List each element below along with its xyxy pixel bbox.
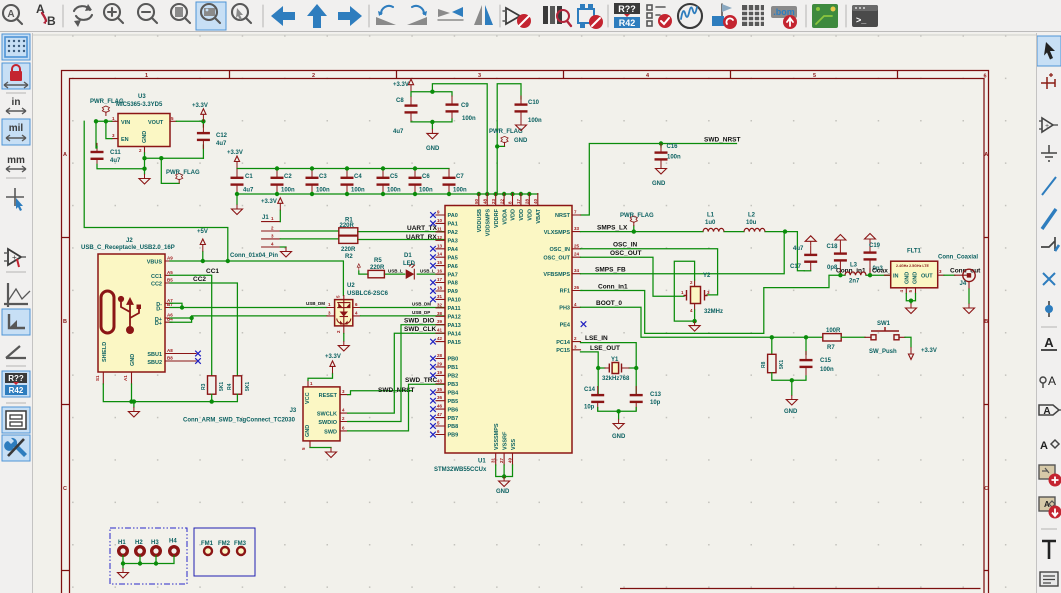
properties tools icon highlighted	[2, 435, 30, 461]
svg-text:PB7: PB7	[448, 416, 459, 422]
add sheet icon	[1039, 465, 1061, 487]
wire FLT1 out to J4	[944, 274, 955, 276]
wire CC2 net	[170, 283, 237, 376]
svg-text:C9: C9	[461, 103, 469, 109]
svg-text:R??: R??	[618, 4, 636, 14]
wire UART_TX net	[280, 230, 445, 233]
wire J1 pin1 to +3.3V	[279, 210, 281, 221]
MCU bottom pin stubs	[496, 453, 513, 465]
MCU right pin numbers	[574, 210, 580, 350]
wire OSC_IN net	[581, 249, 718, 295]
svg-text:46: 46	[437, 404, 443, 409]
svg-text:29: 29	[437, 361, 443, 366]
svg-text:C6: C6	[422, 174, 430, 180]
svg-text:VSSSMPS: VSSSMPS	[494, 423, 500, 450]
svg-text:PA14: PA14	[448, 331, 462, 337]
resistor R3	[208, 376, 216, 394]
wire MCU VSS gnd	[496, 465, 513, 477]
svg-text:PH3: PH3	[559, 306, 570, 312]
power flag PWR_FLAG4	[630, 216, 637, 226]
svg-text:220R: 220R	[340, 223, 355, 229]
svg-text:mm: mm	[7, 155, 25, 166]
svg-text:100n: 100n	[281, 188, 295, 194]
fiducial FM3	[234, 541, 247, 555]
svg-text:C11: C11	[110, 150, 121, 156]
svg-text:VDDSMPS: VDDSMPS	[485, 209, 491, 237]
svg-text:FM1: FM1	[201, 541, 214, 547]
svg-text:VCC: VCC	[305, 392, 311, 404]
svg-text:H2: H2	[135, 540, 143, 546]
svg-text:15: 15	[437, 260, 443, 265]
svg-text:GND: GND	[130, 354, 136, 366]
svg-text:12: 12	[437, 235, 443, 240]
svg-text:PA0: PA0	[448, 213, 458, 219]
svg-text:Conn_Coaxial: Conn_Coaxial	[938, 255, 978, 261]
svg-text:CC1: CC1	[206, 268, 219, 275]
svg-text:S1: S1	[95, 375, 100, 381]
svg-text:C7: C7	[456, 174, 464, 180]
sheet frame outer border	[62, 71, 989, 593]
add ground icon	[1041, 145, 1057, 161]
hierarchy navigator icon highlighted	[2, 407, 30, 433]
wire SMPS_FB net	[581, 232, 785, 274]
svg-text:R7: R7	[827, 345, 835, 351]
connector J1 pins	[230, 215, 280, 259]
svg-text:GND: GND	[426, 146, 440, 152]
svg-text:4u7: 4u7	[110, 158, 121, 164]
svg-text:C19: C19	[869, 243, 881, 249]
crystal Y2 32MHz	[681, 273, 723, 315]
capacitor C6	[409, 169, 422, 194]
svg-text:U3: U3	[138, 94, 146, 100]
svg-text:PB9: PB9	[448, 433, 459, 439]
svg-text:28: 28	[437, 353, 443, 358]
nav right arrow	[338, 6, 362, 26]
junction VIN	[104, 119, 108, 123]
wire antenna filter net	[829, 274, 891, 276]
svg-text:C5: C5	[390, 174, 398, 180]
svg-text:PB2: PB2	[448, 374, 459, 380]
wire USB_DM to MCU	[361, 307, 446, 309]
wire FLT1 gnd	[906, 294, 915, 304]
capacitor C8	[405, 97, 418, 122]
svg-text:SWD_NRST: SWD_NRST	[704, 137, 741, 144]
svg-text:100n: 100n	[667, 155, 681, 161]
grid visibility icon highlighted	[2, 34, 30, 60]
svg-text:PE4: PE4	[560, 322, 571, 328]
wire UART_RX net	[280, 238, 445, 241]
svg-text:VDD: VDD	[511, 209, 517, 221]
wire NRST net	[581, 144, 737, 216]
svg-text:PWR_FLAG: PWR_FLAG	[620, 213, 654, 219]
add text icon	[1042, 541, 1056, 559]
svg-text:PA5: PA5	[448, 255, 458, 261]
svg-text:C8: C8	[396, 98, 404, 104]
svg-text:GND: GND	[514, 138, 528, 144]
svg-text:B8: B8	[167, 356, 173, 361]
any angle lines icon	[6, 346, 26, 358]
wire +3.3V top rail	[411, 84, 487, 194]
svg-text:C15: C15	[820, 358, 832, 364]
edit footprints icon	[578, 4, 603, 29]
svg-text:USB_DM: USB_DM	[412, 302, 431, 307]
wire BOOT_0 net	[581, 307, 823, 354]
svg-text:C3: C3	[319, 174, 327, 180]
fiducials box	[194, 528, 255, 576]
mirror h icon	[438, 7, 463, 20]
MCU bottom pin names rotated	[494, 423, 517, 450]
junction icon	[1045, 301, 1053, 317]
svg-text:PA9: PA9	[448, 289, 458, 295]
svg-text:16: 16	[437, 269, 443, 274]
svg-text:PB4: PB4	[448, 391, 460, 397]
capacitor C18	[834, 245, 847, 270]
svg-text:100n: 100n	[316, 188, 330, 194]
svg-text:OUT: OUT	[921, 274, 933, 280]
net label icon	[1041, 335, 1057, 350]
no connect PE4	[581, 321, 587, 327]
annotate tool icon highlighted	[2, 371, 30, 397]
svg-text:CC2: CC2	[151, 282, 162, 288]
wire VOUT +3.3V net	[176, 121, 203, 158]
wire to bus entry icon	[1041, 237, 1059, 251]
svg-text:PA3: PA3	[448, 239, 458, 245]
wire C10 rail	[497, 84, 521, 194]
svg-text:FM2: FM2	[218, 541, 231, 547]
resistor R2	[339, 236, 358, 243]
rotate ccw icon	[376, 6, 396, 25]
svg-text:3: 3	[478, 73, 481, 79]
capacitor C14	[591, 386, 604, 411]
svg-text:C17: C17	[790, 264, 802, 270]
global label icon	[1039, 405, 1061, 417]
svg-text:R2: R2	[345, 254, 353, 260]
svg-text:32kHz768: 32kHz768	[602, 376, 630, 382]
svg-text:27: 27	[499, 457, 504, 463]
svg-text:24: 24	[574, 252, 580, 257]
svg-text:OSC_IN: OSC_IN	[550, 247, 571, 253]
svg-text:A5: A5	[167, 270, 173, 275]
junctions VDD rail at MCU pins	[477, 192, 532, 196]
svg-text:L2: L2	[748, 213, 756, 219]
wire J3 VCC +3.3V	[308, 373, 333, 380]
svg-text:LSE_OUT: LSE_OUT	[590, 345, 620, 352]
svg-text:OSC_OUT: OSC_OUT	[610, 250, 641, 257]
add power port icon	[1039, 118, 1058, 132]
MCU U1 STM32WB55CCUx body	[434, 206, 572, 474]
fiducial FM2	[218, 541, 231, 555]
svg-text:PA15: PA15	[448, 340, 461, 346]
svg-text:C16: C16	[667, 144, 679, 150]
svg-text:B: B	[63, 319, 67, 325]
svg-text:+: +	[1045, 123, 1049, 130]
svg-text:C13: C13	[650, 392, 662, 398]
svg-text:34: 34	[574, 268, 580, 273]
svg-text:2: 2	[312, 73, 315, 79]
resistor R1	[339, 228, 358, 235]
svg-text:41: 41	[437, 328, 443, 333]
resistor R5	[368, 270, 384, 277]
svg-text:PB3: PB3	[448, 382, 459, 388]
svg-text:STM32WB55CCUx: STM32WB55CCUx	[434, 467, 487, 473]
svg-text:UART_TX: UART_TX	[407, 225, 438, 232]
wire Y2 case gnd loop	[674, 261, 694, 321]
svg-text:EN: EN	[121, 137, 129, 143]
svg-text:SBU2: SBU2	[147, 360, 162, 366]
svg-text:4u7: 4u7	[243, 188, 254, 194]
svg-text:>_: >_	[856, 15, 867, 25]
svg-text:C18: C18	[827, 244, 839, 250]
svg-text:USB_DP: USB_DP	[412, 310, 430, 315]
capacitor C13	[630, 386, 643, 411]
MCU left pin stubs	[436, 215, 445, 435]
erc symbol icon	[4, 249, 26, 267]
svg-text:14: 14	[437, 252, 443, 257]
svg-text:PA7: PA7	[448, 272, 458, 278]
svg-text:L3: L3	[850, 263, 858, 269]
frame row ticks	[62, 238, 989, 571]
svg-text:10p: 10p	[584, 405, 595, 411]
svg-text:R42: R42	[9, 386, 24, 395]
ground below C8 C9	[427, 129, 438, 139]
svg-text:38: 38	[437, 311, 443, 316]
inductor L2	[744, 228, 765, 231]
svg-text:D+: D+	[155, 321, 162, 327]
svg-text:SW_Push: SW_Push	[869, 349, 897, 355]
svg-text:GND: GND	[305, 425, 311, 437]
MCU bottom pin numbers rotated	[491, 457, 513, 463]
svg-text:10p: 10p	[650, 400, 661, 406]
USB connector J2	[81, 238, 196, 384]
svg-text:C4: C4	[354, 174, 362, 180]
svg-text:A: A	[984, 152, 988, 158]
wire J1 pin4 to gnd	[280, 246, 286, 248]
regulator U3 MIC5365-3.3YD5	[112, 94, 177, 153]
no connect icon	[1043, 273, 1055, 285]
wire J4 gnd	[968, 289, 970, 304]
svg-text:J1: J1	[262, 215, 269, 221]
svg-text:PA11: PA11	[448, 306, 461, 312]
wire capacitor bank bottom rail VDD	[237, 193, 538, 195]
svg-text:PC15: PC15	[556, 348, 570, 354]
full cursor icon	[6, 188, 24, 211]
capacitor C17	[804, 246, 817, 271]
svg-text:U2: U2	[347, 283, 355, 289]
rotate cw icon	[407, 6, 427, 25]
svg-text:18: 18	[437, 286, 443, 291]
wire LED net	[359, 271, 445, 274]
svg-text:26: 26	[574, 285, 580, 290]
ground below C16	[656, 164, 667, 174]
wire R8 C15 gnd	[772, 373, 806, 395]
svg-text:PB6: PB6	[448, 407, 459, 413]
capacitor C5	[377, 169, 390, 194]
svg-text:28: 28	[525, 198, 530, 204]
svg-text:FM3: FM3	[234, 541, 247, 547]
frame column ticks	[230, 71, 898, 79]
svg-text:35: 35	[437, 387, 443, 392]
svg-text:C12: C12	[216, 133, 228, 139]
svg-text:4u7: 4u7	[793, 246, 804, 252]
svg-text:PC14: PC14	[556, 340, 571, 346]
mounting hole H3	[151, 540, 160, 555]
svg-text:+3.3V: +3.3V	[192, 103, 208, 109]
svg-text:PA13: PA13	[448, 323, 461, 329]
svg-text:SWDIO: SWDIO	[318, 420, 337, 426]
svg-text:PA12: PA12	[448, 315, 461, 321]
usb logo trident	[119, 297, 141, 334]
svg-text:FLT1: FLT1	[907, 249, 922, 255]
add wire icon	[1042, 177, 1056, 195]
wire J3 gnd	[310, 447, 331, 449]
svg-text:220R: 220R	[370, 265, 385, 271]
power +3.3V down arrow	[908, 347, 913, 360]
power flag PWR_FLAG3	[501, 136, 508, 146]
svg-text:GND: GND	[652, 181, 666, 187]
svg-text:PB5: PB5	[448, 399, 459, 405]
svg-text:49: 49	[508, 457, 513, 463]
assign footprint icon	[712, 4, 737, 29]
junctions cap bank	[235, 166, 451, 196]
svg-text:SBU1: SBU1	[147, 352, 162, 358]
svg-text:mil: mil	[9, 123, 24, 134]
svg-text:VLXSMPS: VLXSMPS	[544, 230, 571, 236]
svg-text:100n: 100n	[820, 367, 834, 373]
inductor L1	[703, 228, 724, 231]
svg-text:PA2: PA2	[448, 230, 458, 236]
capacitor C19	[864, 244, 877, 269]
MCU right pin stubs	[572, 215, 581, 350]
wire USB shield gnd	[103, 384, 237, 407]
coaxial connector J4	[938, 255, 978, 290]
wire SWD_NRST from J3	[348, 391, 412, 395]
svg-text:+3.3V: +3.3V	[261, 199, 277, 205]
svg-text:USB_C_Receptacle_USB2.0_16P: USB_C_Receptacle_USB2.0_16P	[81, 245, 175, 251]
svg-text:VOUT: VOUT	[148, 120, 164, 126]
svg-text:OSC_IN: OSC_IN	[613, 242, 638, 249]
svg-text:VDDA: VDDA	[502, 209, 508, 225]
svg-text:Conn_01x04_Pin: Conn_01x04_Pin	[230, 253, 278, 259]
svg-text:4u7: 4u7	[393, 129, 404, 135]
annotate R42 icon	[614, 3, 640, 28]
svg-text:GND: GND	[784, 409, 798, 415]
svg-text:VDD: VDD	[519, 209, 525, 221]
add text box icon	[1040, 572, 1058, 586]
svg-text:A1: A1	[123, 375, 128, 381]
fiducial FM1	[201, 541, 214, 555]
wire regulator GND net	[145, 153, 204, 184]
svg-text:PA10: PA10	[448, 298, 461, 304]
svg-text:32: 32	[437, 302, 443, 307]
svg-text:SHIELD: SHIELD	[102, 342, 108, 362]
svg-text:D-: D-	[156, 306, 162, 312]
svg-text:48: 48	[482, 198, 487, 204]
power +3.3V above C8	[408, 79, 413, 92]
svg-text:5K1: 5K1	[779, 360, 785, 369]
svg-text:22: 22	[499, 198, 504, 204]
ground below USB	[128, 407, 139, 417]
svg-text:R42: R42	[619, 18, 636, 28]
svg-text:100n: 100n	[387, 188, 401, 194]
mounting hole H2	[135, 540, 144, 555]
svg-text:39: 39	[437, 319, 443, 324]
capacitor C12	[197, 124, 210, 149]
svg-text:LSE_IN: LSE_IN	[585, 335, 608, 342]
svg-text:4u7: 4u7	[216, 141, 227, 147]
console icon	[852, 5, 878, 27]
wire OSC_OUT net	[581, 257, 685, 296]
snap lock icon highlighted	[2, 63, 30, 89]
mounting hole H1	[118, 540, 127, 555]
svg-text:31: 31	[491, 457, 496, 463]
svg-text:6: 6	[984, 74, 987, 80]
filter FLT1	[885, 249, 945, 294]
nav up arrow	[307, 4, 327, 28]
svg-text:VBAT: VBAT	[536, 208, 542, 223]
capacitor C1	[231, 169, 244, 194]
svg-text:A: A	[1044, 335, 1054, 350]
wire SMPS_LX net	[581, 226, 805, 271]
IC U2 USBLC6-2SC6	[306, 283, 389, 334]
svg-text:VDDUSB: VDDUSB	[477, 209, 483, 232]
svg-text:B: B	[47, 14, 56, 28]
capacitor C16	[655, 144, 668, 169]
svg-text:50: 50	[474, 198, 479, 204]
svg-text:LED: LED	[403, 261, 416, 267]
svg-text:100R: 100R	[826, 328, 841, 334]
zoom in icon	[104, 4, 123, 23]
svg-text:J3: J3	[290, 408, 297, 414]
svg-text:42: 42	[437, 336, 443, 341]
zoom auto icon	[3, 5, 22, 24]
svg-text:100n: 100n	[462, 116, 476, 122]
power flag PWR_FLAG2	[176, 173, 183, 183]
svg-text:13: 13	[437, 243, 443, 248]
svg-text:C10: C10	[528, 100, 540, 106]
svg-text:NRST: NRST	[555, 213, 571, 219]
svg-text:31: 31	[437, 294, 443, 299]
usb logo oval	[101, 291, 114, 333]
ground up above C17	[805, 236, 816, 246]
svg-text:A: A	[1043, 406, 1050, 417]
edit symbols icon	[503, 8, 531, 28]
svg-text:SW1: SW1	[877, 321, 891, 327]
MCU top pin stubs	[479, 194, 538, 206]
J2 pins	[103, 261, 196, 384]
connector J3 SWD	[183, 381, 348, 451]
svg-text:BOOT_0: BOOT_0	[596, 300, 622, 307]
svg-text:VIN: VIN	[121, 120, 130, 126]
netclass directive icon	[1040, 374, 1056, 388]
wire USB_DP to MCU	[361, 315, 446, 317]
erc icon	[647, 5, 672, 28]
svg-text:33: 33	[574, 226, 580, 231]
svg-text:PA1: PA1	[448, 222, 458, 228]
switch SW1	[865, 321, 905, 355]
svg-text:C: C	[984, 486, 988, 492]
no connect SBU1 SBU2	[195, 351, 201, 357]
add bus icon	[1042, 209, 1056, 229]
crystal Y1 32kHz	[602, 357, 630, 382]
wire USB D+ net	[170, 316, 327, 322]
wire LSE gnd	[598, 408, 637, 420]
svg-text:R??: R??	[8, 374, 24, 383]
no connect marks left pins	[430, 212, 436, 437]
svg-text:2.4GHz 2.5GHz LTE: 2.4GHz 2.5GHz LTE	[896, 264, 929, 268]
power +3.3V at R5	[357, 264, 360, 272]
svg-text:PB0: PB0	[448, 357, 459, 363]
svg-text:Y2: Y2	[703, 273, 711, 279]
